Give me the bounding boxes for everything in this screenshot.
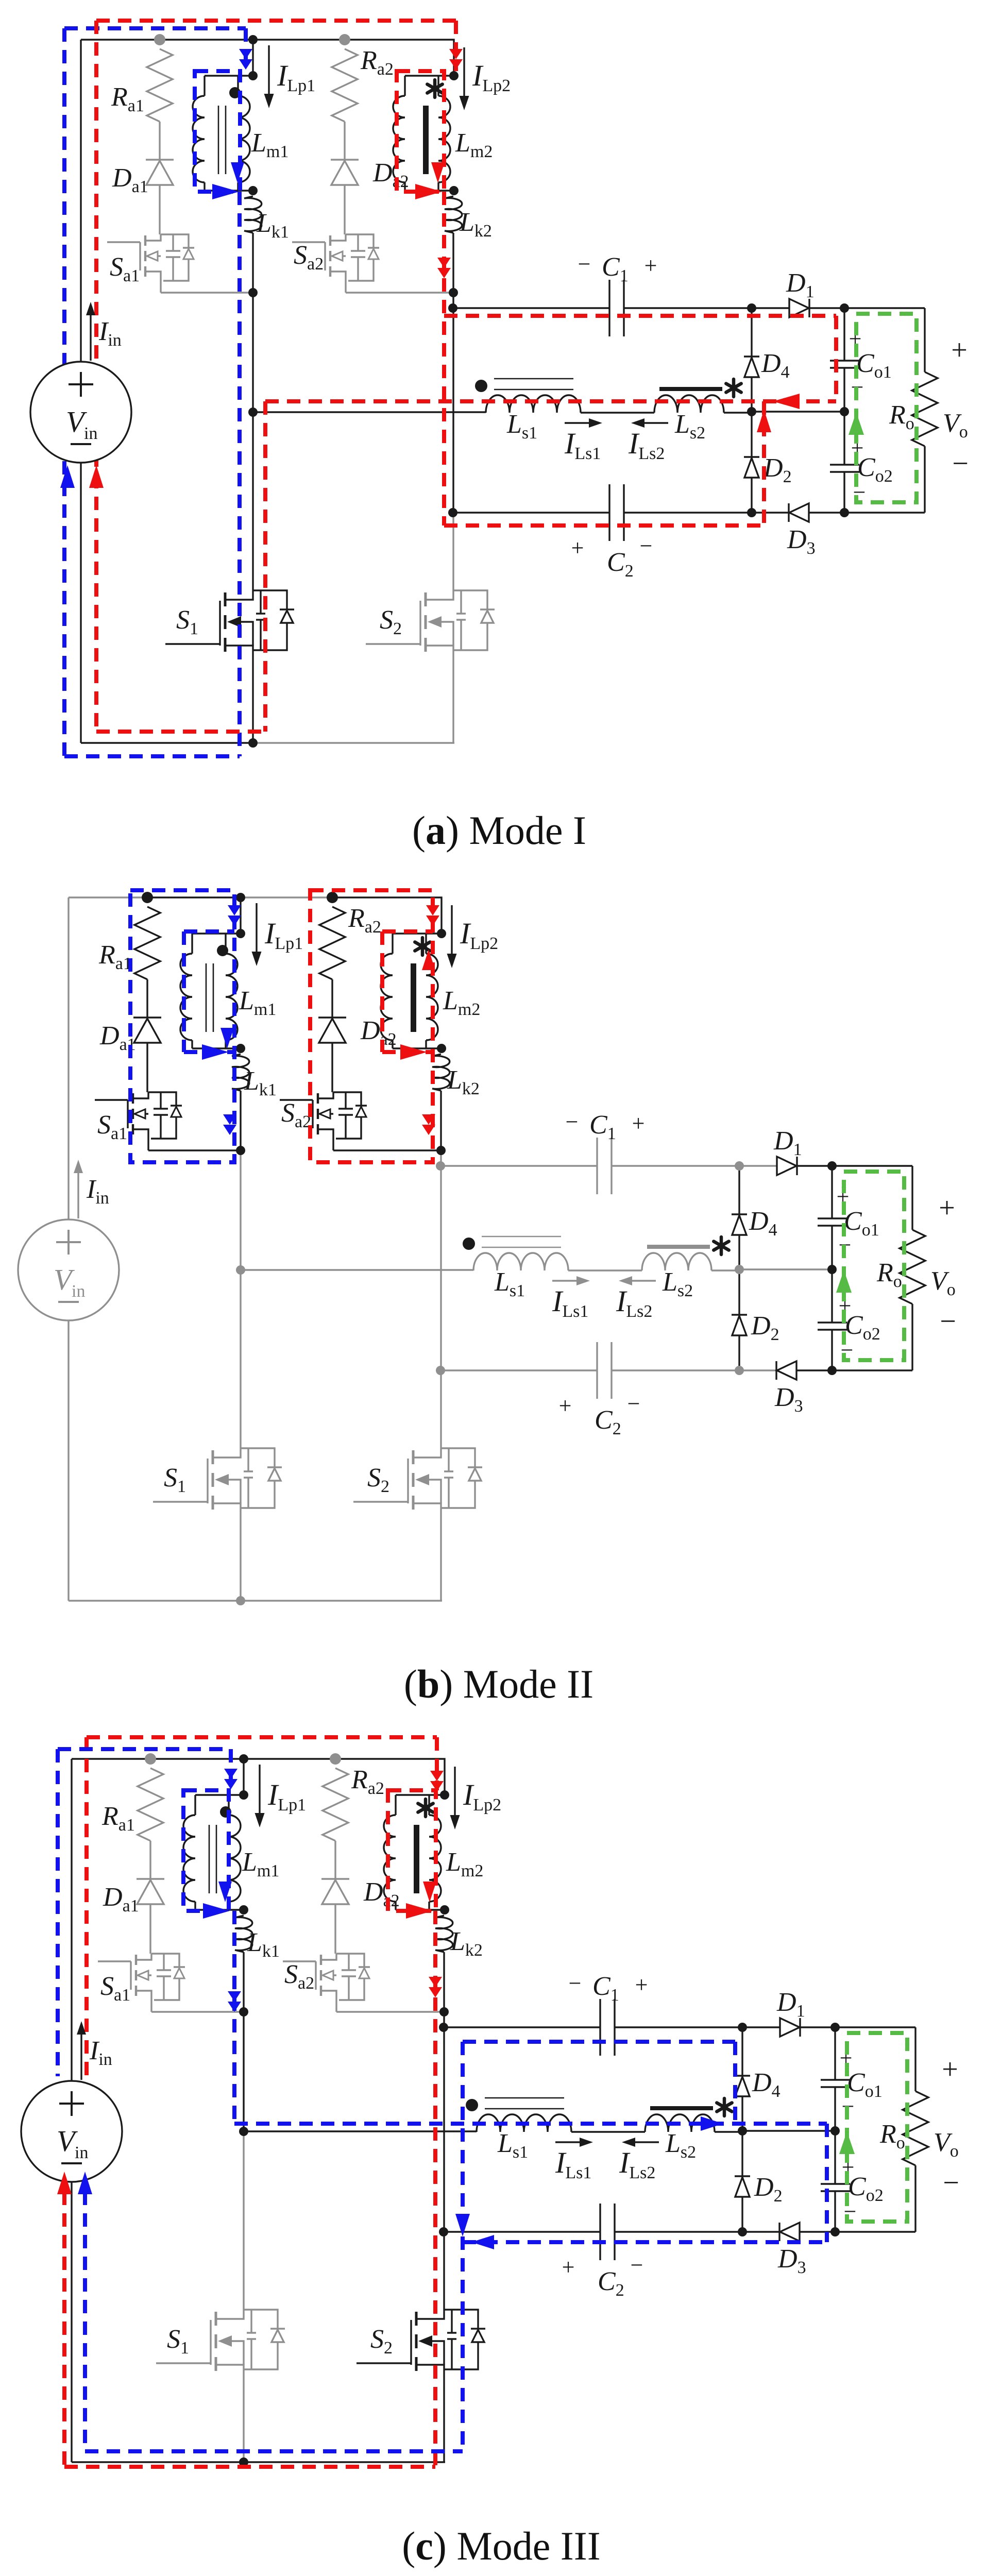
- svg-text:in: in: [72, 1282, 85, 1301]
- svg-text:(a) Mode I: (a) Mode I: [412, 808, 586, 853]
- red arrow up at Vin: [89, 465, 104, 488]
- wire switch node to Ls1: [253, 411, 486, 413]
- blue arrow right at Lk1: [212, 184, 239, 199]
- resistor Ra2: [323, 1768, 348, 1841]
- blue arrow right at Lk1: [202, 1044, 229, 1060]
- red path C-link riser: [442, 192, 446, 526]
- node ground rail: [239, 2458, 248, 2467]
- blue path right segment: [237, 192, 242, 756]
- blue path drop to Lm1: [229, 1749, 233, 1790]
- current arrow ILs2: [628, 2141, 659, 2143]
- red arrow up at Vin: [57, 2172, 72, 2194]
- node output top: [827, 1161, 837, 1171]
- current arrow ILs1: [565, 422, 595, 423]
- resistor Ra1: [147, 49, 173, 122]
- red path top segment: [87, 1735, 437, 1739]
- core lines Ls1: [485, 2097, 564, 2099]
- coupled inductor Lm2: [396, 1794, 445, 1795]
- coupled inductor Lm1: [240, 897, 241, 934]
- load resistor Ro: [844, 307, 925, 309]
- svg-text:−: −: [566, 1109, 579, 1134]
- wire phase1 leg: [252, 233, 253, 293]
- node Lm1 winding bottom: [236, 1044, 245, 1053]
- green output loop rectangle: [847, 2033, 907, 2222]
- MOSFET Sa2: [292, 241, 325, 243]
- inductor Lk1: [235, 1916, 252, 1952]
- blue chevron below Lk1: [228, 1991, 241, 2002]
- red path secondary right: [834, 316, 838, 401]
- node aux2 top: [330, 1753, 341, 1765]
- node output mid: [827, 1265, 837, 1274]
- polarity dot Lm1: [220, 1806, 231, 1818]
- red arrow right at Lk2: [406, 1903, 433, 1919]
- red loop Lm2 bottom edge: [382, 1050, 433, 1054]
- capacitor Co1: [831, 1166, 833, 1218]
- voltage source Vin: [21, 2081, 122, 2182]
- red path bottom segment: [64, 2465, 435, 2469]
- blue arrow down at C-link: [455, 2214, 470, 2236]
- capacitor C1: [444, 2026, 600, 2028]
- node aux2 top: [327, 892, 338, 903]
- svg-text:(c) Mode III: (c) Mode III: [402, 2523, 600, 2568]
- load resistor Ro: [835, 2026, 915, 2028]
- red path through Ls1 Ls2: [265, 399, 836, 403]
- node Sa2 source: [439, 2007, 449, 2016]
- node Sa1 source: [248, 288, 258, 297]
- MOSFET Sa1: [107, 241, 140, 243]
- voltage source Vin: [30, 362, 131, 463]
- node ground rail: [248, 738, 258, 748]
- core bar Ls2: [650, 2106, 713, 2110]
- node top rail / Lm1: [239, 1754, 248, 1764]
- ground rail wire: [69, 1600, 241, 1601]
- wire phase2 leg: [452, 233, 454, 293]
- current arrow ILp1: [259, 1765, 260, 1820]
- diode Da2: [344, 122, 345, 160]
- wire Vin bottom lead: [80, 463, 81, 743]
- coupled inductor Lm2: [405, 75, 454, 76]
- red chevron below Lk2: [429, 1977, 442, 1987]
- inductor Ls1: [477, 2114, 571, 2132]
- coupled inductor Lm2: [393, 933, 442, 934]
- inductor Ls2: [645, 2114, 715, 2132]
- capacitor C2: [453, 512, 609, 513]
- svg-text:+: +: [559, 1393, 572, 1418]
- diode Da2: [334, 1841, 336, 1879]
- middle rail: [742, 2130, 835, 2131]
- MOSFET S1: [153, 1501, 208, 1502]
- svg-text:−: −: [943, 2167, 959, 2199]
- red chevron into Lm2: [426, 905, 439, 916]
- core bar Lm2: [423, 106, 429, 174]
- svg-text:in: in: [84, 424, 97, 443]
- wire Vin top lead: [71, 1759, 72, 2081]
- diode D1: [789, 299, 809, 317]
- blue arrow right into Ls2: [701, 2116, 723, 2131]
- red path S2 leg descent: [433, 1911, 437, 2467]
- node Lm1 winding top: [248, 71, 258, 80]
- node C2 left: [448, 508, 457, 517]
- svg-text:+: +: [939, 1192, 955, 1224]
- MOSFET S2: [366, 643, 420, 645]
- node Lm2 winding top: [437, 929, 446, 938]
- ground rail wire: [72, 2461, 244, 2463]
- blue path above C1: [463, 2040, 735, 2044]
- diode D1: [780, 2018, 800, 2037]
- current arrow ILp1: [268, 45, 269, 101]
- inductor Ls1: [486, 395, 581, 413]
- node C2 left: [439, 2227, 448, 2236]
- node output bottom: [840, 508, 849, 517]
- current arrow ILs2: [625, 1280, 656, 1281]
- blue path left segment: [62, 28, 66, 756]
- current arrow ILs1: [555, 2141, 586, 2143]
- wire Vin top lead: [67, 897, 69, 1219]
- voltage source Vin: [18, 1219, 119, 1320]
- capacitor C2: [440, 1369, 597, 1371]
- node aux1 top: [145, 1753, 156, 1765]
- wire phase2 leg: [443, 1952, 445, 2012]
- polarity asterisk Ls2: [732, 379, 736, 397]
- MOSFET Sa1: [95, 1099, 128, 1100]
- blue arrow down Lm1: [218, 1882, 232, 1902]
- red path drop to Lm2: [454, 21, 458, 71]
- wire top rail: [72, 1758, 150, 1759]
- wire Vin top lead: [80, 40, 81, 362]
- blue chevron into Lm1: [239, 49, 252, 59]
- svg-text:−: −: [627, 1391, 640, 1416]
- node Sa1 source: [236, 1146, 245, 1155]
- node Lm1 winding bottom: [248, 186, 258, 195]
- svg-text:in: in: [75, 2143, 88, 2162]
- middle rail: [752, 411, 844, 412]
- blue loop Lm1 top edge: [184, 929, 234, 934]
- node output bottom: [830, 2227, 840, 2236]
- polarity dot Ls1: [475, 380, 487, 392]
- blue path upper-left segment: [56, 1749, 60, 2076]
- blue path top segment: [64, 26, 246, 30]
- MOSFET S1: [165, 643, 220, 645]
- node D2 anode rail: [738, 2227, 747, 2236]
- svg-text:−: −: [640, 533, 653, 558]
- red arrow up through D2: [757, 410, 771, 432]
- red path upper-left segment: [84, 1737, 89, 2076]
- red loop Lm2 top edge: [382, 929, 433, 934]
- current arrow Iin: [80, 2030, 82, 2080]
- node aux1 top: [154, 34, 165, 45]
- node phase1 switch node: [248, 408, 258, 417]
- node output top: [830, 2023, 840, 2032]
- blue path secondary bottom: [463, 2240, 827, 2244]
- svg-text:+: +: [635, 1972, 648, 1997]
- wire Vin bottom lead: [67, 1320, 69, 1601]
- svg-text:−: −: [578, 251, 591, 277]
- node C1 left: [436, 1161, 445, 1171]
- node Lm2 winding bottom: [437, 1044, 446, 1053]
- core bar Lm2: [414, 1825, 419, 1893]
- node phase1 switch node: [239, 2127, 248, 2136]
- blue loop Lm1 left edge: [182, 931, 186, 1052]
- node top rail / Lm1: [236, 893, 245, 902]
- coupled inductor Lm1: [252, 40, 253, 76]
- red arrow right at Lk2: [415, 184, 442, 199]
- capacitor Co2: [843, 412, 845, 465]
- svg-text:−: −: [940, 1306, 956, 1337]
- red path secondary bottom: [444, 523, 764, 528]
- svg-text:+: +: [951, 334, 968, 366]
- node D4 cathode rail: [738, 2023, 747, 2032]
- current arrow Iin: [90, 311, 91, 361]
- current arrow ILs1: [552, 1280, 583, 1281]
- red arrow down Lm2: [431, 162, 445, 183]
- diode Da1: [146, 979, 148, 1018]
- node phase1 switch node: [236, 1265, 245, 1275]
- current arrow Iin: [77, 1169, 79, 1218]
- blue path lower-left segment: [83, 2148, 87, 2451]
- current arrow ILp1: [256, 903, 257, 959]
- blue loop around Lm1: [183, 1790, 229, 1911]
- red path bottom segment: [96, 730, 265, 734]
- wire top rail: [81, 39, 160, 40]
- red loop Lm2 left edge: [380, 931, 384, 1052]
- node D4 cathode rail: [747, 303, 756, 313]
- blue loop around aux branch1: [130, 890, 234, 1162]
- node C1 left: [448, 303, 457, 313]
- diode D3: [789, 503, 809, 522]
- wire switch node to Ls1: [244, 2130, 477, 2132]
- red arrow up at Lm2 star: [422, 950, 435, 970]
- MOSFET Sa2: [283, 1960, 316, 1962]
- blue path D4 column: [733, 2042, 737, 2124]
- node output mid: [830, 2126, 840, 2136]
- resistor Ra1: [138, 1768, 163, 1841]
- polarity dot Lm1: [229, 87, 241, 98]
- current arrow ILp2: [463, 47, 465, 103]
- current arrow ILp2: [454, 1767, 455, 1822]
- wire phase1 leg: [240, 1091, 241, 1150]
- red chevron at Sa2 leg: [422, 1114, 435, 1125]
- inductor Ls2: [654, 395, 724, 413]
- diode Da2: [331, 979, 333, 1018]
- svg-text:−: −: [569, 1971, 582, 1996]
- blue path bottom segment: [85, 2449, 463, 2453]
- green arrow up output loop: [839, 2131, 855, 2154]
- blue path C-link riser: [461, 2042, 465, 2451]
- node C2 left: [436, 1366, 445, 1375]
- polarity asterisk Ls2: [720, 1237, 723, 1255]
- capacitor Co2: [831, 1269, 833, 1323]
- polarity asterisk Lm2: [421, 938, 425, 955]
- blue chevron into Lm1: [224, 1769, 237, 1779]
- red arrow left into Ls2: [773, 394, 800, 409]
- coupled inductor Lm1: [243, 1759, 244, 1795]
- node Lm2 winding top: [449, 71, 459, 80]
- red loop around Lm2: [388, 1790, 436, 1911]
- diode D1: [777, 1157, 796, 1175]
- node output top: [840, 303, 849, 313]
- node ground rail: [236, 1596, 245, 1605]
- blue loop Lm1 bottom edge: [184, 1050, 234, 1054]
- core lines Ls1: [494, 378, 573, 380]
- svg-text:(b) Mode II: (b) Mode II: [404, 1662, 593, 1706]
- polarity asterisk Ls2: [723, 2098, 726, 2116]
- diode D3: [780, 2223, 800, 2241]
- MOSFET S2: [353, 1501, 408, 1502]
- diode Da1: [149, 1841, 151, 1879]
- node aux1 top: [142, 892, 153, 903]
- node aux2 top: [339, 34, 350, 45]
- blue arrow down Lm1: [231, 162, 244, 183]
- red path secondary top: [444, 314, 836, 318]
- inductor Ls1: [473, 1253, 568, 1270]
- core bar Ls2: [659, 387, 722, 391]
- red path lower-left segment: [62, 2148, 66, 2467]
- resistor Ra2: [332, 49, 358, 122]
- node Lm1 winding top: [239, 1790, 248, 1800]
- red chevron into Lm2: [430, 1771, 444, 1781]
- node Sa2 source: [449, 288, 458, 297]
- node output mid: [840, 407, 849, 416]
- node Sa2 source: [436, 1146, 446, 1155]
- core lines Lm1: [209, 1825, 210, 1893]
- node Lm1 winding bottom: [239, 1905, 248, 1914]
- blue path drop to Lm1: [244, 28, 248, 71]
- svg-text:+: +: [632, 1111, 645, 1136]
- blue chevron at Sa1 leg: [223, 1114, 236, 1125]
- resistor Ra1: [134, 907, 160, 979]
- current arrow ILs2: [637, 422, 668, 423]
- svg-text:+: +: [942, 2054, 958, 2086]
- svg-text:+: +: [644, 253, 657, 278]
- resistor Ra2: [319, 907, 345, 979]
- red path D2 riser: [762, 401, 766, 526]
- capacitor C1: [453, 307, 609, 309]
- MOSFET Sa2: [280, 1099, 313, 1100]
- inductor Lk2: [435, 1916, 453, 1952]
- blue arrow left secondary bottom: [471, 2235, 494, 2249]
- core lines Ls1: [482, 1236, 561, 1238]
- green output loop rectangle: [856, 314, 917, 502]
- wire phase1 leg: [243, 1952, 244, 2012]
- node C1 left: [439, 2023, 448, 2032]
- red path top segment: [96, 19, 456, 23]
- core lines Lm1: [206, 963, 207, 1032]
- current arrow ILp2: [451, 905, 452, 961]
- svg-text:+: +: [571, 535, 584, 561]
- red path drop to Lm2: [435, 1737, 439, 1790]
- node D2 anode rail: [735, 1366, 744, 1375]
- polarity dot Ls1: [466, 2099, 478, 2111]
- diode D2: [738, 1269, 740, 1315]
- wire top rail: [69, 896, 147, 898]
- red arrow down Lm2: [423, 1882, 436, 1902]
- node D4 cathode rail: [735, 1161, 744, 1171]
- red path S1 riser: [263, 401, 267, 732]
- node D4-D2 midpoint: [747, 407, 756, 416]
- svg-text:+: +: [562, 2255, 575, 2280]
- inductor Lk1: [244, 196, 262, 233]
- red path left segment: [94, 21, 98, 732]
- green arrow up output loop: [849, 412, 864, 435]
- diode D2: [741, 2131, 743, 2176]
- polarity asterisk Lm2: [433, 80, 437, 97]
- wire switch node to Ls1: [241, 1269, 473, 1270]
- inductor Ls2: [642, 1253, 711, 1270]
- diode D4: [741, 2027, 743, 2076]
- diode D3: [777, 1361, 796, 1380]
- load resistor Ro: [832, 1165, 912, 1166]
- diode D2: [751, 412, 752, 457]
- blue path S1 leg descent: [232, 1911, 236, 2124]
- blue loop around Lm1: [195, 71, 240, 192]
- inductor Lk2: [432, 1054, 450, 1091]
- polarity asterisk Lm2: [424, 1799, 428, 1817]
- capacitor C2: [444, 2231, 600, 2232]
- svg-text:−: −: [631, 2252, 643, 2278]
- core lines Lm1: [218, 106, 219, 174]
- red chevron into Lm2: [449, 49, 463, 59]
- node Lm2 winding top: [440, 1790, 449, 1800]
- core bar Lm2: [411, 963, 416, 1032]
- middle rail: [739, 1268, 832, 1270]
- node output bottom: [827, 1366, 837, 1375]
- wire phase2 leg: [440, 1091, 442, 1150]
- blue path through Ls1 Ls2: [234, 2122, 827, 2126]
- green arrow up output loop: [836, 1270, 852, 1293]
- node Lm2 winding bottom: [449, 186, 459, 195]
- MOSFET S2: [357, 2362, 411, 2364]
- MOSFET S1: [156, 2362, 211, 2364]
- node D4-D2 midpoint: [735, 1265, 744, 1274]
- node Lm2 winding bottom: [440, 1905, 449, 1914]
- MOSFET Sa1: [98, 1960, 131, 1962]
- capacitor Co1: [834, 2027, 836, 2080]
- diode Da1: [159, 122, 160, 160]
- node Sa1 source: [239, 2007, 248, 2016]
- node D2 anode rail: [747, 508, 756, 517]
- wire Vin bottom lead: [71, 2182, 72, 2462]
- blue path bottom segment: [64, 754, 240, 758]
- ground rail wire: [81, 742, 253, 743]
- red loop around Lm2: [397, 71, 444, 192]
- core bar Ls2: [647, 1245, 710, 1249]
- blue chevron into Lm1: [228, 905, 241, 916]
- capacitor Co2: [834, 2131, 836, 2184]
- blue path top segment: [58, 1747, 231, 1751]
- blue arrow up at Vin: [60, 465, 75, 488]
- polarity dot Lm1: [217, 945, 228, 956]
- inductor Lk1: [232, 1054, 249, 1091]
- blue arrow right at Lk1: [203, 1903, 230, 1919]
- green output loop rectangle: [844, 1172, 904, 1360]
- inductor Lk2: [445, 196, 462, 233]
- diode D4: [751, 308, 752, 357]
- node D4-D2 midpoint: [738, 2126, 747, 2136]
- red chevron below Lk2: [437, 258, 451, 268]
- blue path output riser: [825, 2124, 829, 2242]
- red arrow right at Lk2: [400, 1044, 427, 1060]
- node Lm1 winding top: [236, 929, 245, 938]
- diode D4: [738, 1166, 740, 1214]
- polarity dot Ls1: [463, 1238, 475, 1250]
- red loop around aux branch2: [310, 890, 433, 1162]
- blue arrow down Lm1: [220, 1028, 234, 1048]
- blue arrow up at Vin: [78, 2172, 92, 2194]
- svg-text:−: −: [952, 448, 969, 480]
- capacitor C1: [440, 1165, 597, 1166]
- capacitor Co1: [843, 308, 845, 361]
- node top rail / Lm1: [248, 35, 258, 44]
